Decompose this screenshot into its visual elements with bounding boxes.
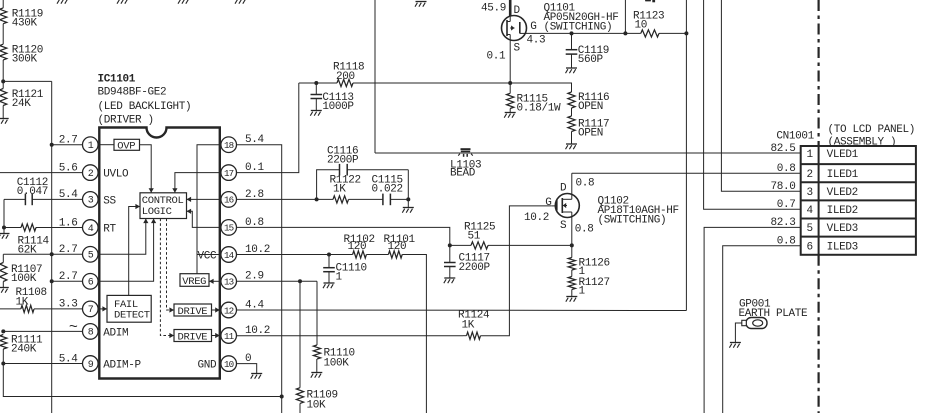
OVP box	[114, 139, 140, 152]
ground stub top 2	[117, 0, 129, 4]
svg-text:0.8: 0.8	[576, 177, 595, 189]
svg-text:1K: 1K	[333, 184, 346, 196]
svg-text:D: D	[560, 182, 567, 194]
svg-text:7: 7	[88, 305, 94, 316]
label pin10 voltage	[245, 353, 251, 365]
svg-text:(LED BACKLIGHT): (LED BACKLIGHT)	[98, 101, 192, 113]
wire gate top stub	[624, 0, 626, 33]
svg-text:200: 200	[336, 71, 355, 83]
svg-text:100K: 100K	[11, 273, 37, 285]
label pin4 voltage	[59, 217, 78, 229]
label pin6 voltage	[59, 271, 78, 283]
wire R1101 down to bottom	[402, 255, 426, 413]
ground under C1117	[444, 273, 456, 284]
boundary dash line lower	[817, 255, 819, 413]
wire R1124 to Q1102 gate	[481, 206, 552, 336]
svg-text:SS: SS	[103, 195, 116, 207]
label CN1001 ILED2	[827, 205, 858, 217]
wire R1119-R1120	[2, 24, 4, 45]
svg-text:LOGIC: LOGIC	[142, 206, 172, 218]
wire pin6 inner to control	[99, 219, 156, 282]
svg-text:(TO LCD PANEL): (TO LCD PANEL)	[828, 124, 916, 136]
svg-text:DRIVE: DRIVE	[178, 332, 208, 344]
ground under R1114	[0, 228, 10, 239]
svg-text:GND: GND	[198, 360, 218, 372]
capacitor C1110	[323, 255, 367, 284]
node pin9 junction	[1, 362, 5, 366]
svg-text:0.022: 0.022	[372, 184, 403, 196]
transistor Q1101 name	[544, 3, 619, 34]
svg-text:CN1001: CN1001	[776, 131, 814, 143]
pin 15	[221, 220, 237, 236]
svg-text:1000P: 1000P	[322, 101, 354, 113]
resistor R1108	[0, 287, 83, 313]
resistor R1117	[568, 108, 609, 139]
svg-text:1: 1	[88, 141, 94, 152]
label pin13 voltage	[245, 271, 264, 283]
wire OVP to control logic	[140, 145, 154, 193]
label CN1001 row4 voltage	[777, 199, 796, 211]
inductor L1103 bead	[450, 148, 481, 179]
wire row2 ILED1	[572, 172, 801, 174]
svg-text:4: 4	[807, 205, 814, 217]
svg-text:VLED1: VLED1	[827, 149, 859, 161]
node Q1102 source junction	[570, 243, 574, 247]
label 10.2 gate	[524, 212, 549, 224]
resistor R1115	[507, 83, 561, 114]
svg-text:RT: RT	[103, 224, 116, 236]
svg-text:560P: 560P	[578, 54, 604, 66]
svg-text:5: 5	[807, 223, 813, 235]
svg-text:120: 120	[348, 241, 367, 253]
svg-text:VLED3: VLED3	[827, 223, 858, 235]
wire 45.9 drain feed	[509, 0, 512, 16]
ground stub top 1	[57, 0, 69, 4]
svg-text:4.3: 4.3	[527, 35, 546, 47]
svg-text:VLED2: VLED2	[827, 187, 858, 199]
pin 18	[221, 137, 237, 153]
node R1125 junction	[448, 243, 452, 247]
svg-text:2: 2	[807, 169, 813, 181]
wire pin13 to VREG	[209, 279, 220, 284]
label 0.8 source	[575, 224, 594, 236]
svg-text:~: ~	[69, 319, 78, 336]
label CN1001 row6 voltage	[777, 235, 796, 247]
label CN1001 row2 voltage	[777, 163, 796, 175]
ground stub top 3	[178, 0, 190, 4]
svg-text:OPEN: OPEN	[578, 101, 603, 113]
ground under R1121	[0, 106, 9, 124]
svg-text:BEAD: BEAD	[450, 167, 476, 179]
wire pin7 arrow to fail detect	[98, 306, 107, 311]
label ADIM-P	[103, 360, 141, 372]
label CN1001 VLED2	[827, 187, 858, 199]
dashed wire control to drive1	[167, 219, 175, 313]
wire pin18-VCC-VREG vertical	[197, 145, 220, 274]
transistor Q1102 name	[598, 195, 679, 226]
svg-text:82.5: 82.5	[770, 143, 795, 155]
ground under C1115	[402, 202, 414, 213]
node 2.7 rail junction	[1, 79, 5, 83]
label pin16 voltage	[245, 189, 264, 201]
wire pin2 UVLO	[0, 172, 83, 174]
label UVLO	[103, 169, 129, 181]
svg-text:430K: 430K	[12, 17, 38, 29]
svg-text:8: 8	[88, 328, 94, 339]
wire pin17 riser	[237, 83, 299, 173]
label CN1001 VLED3	[827, 223, 858, 235]
label pin2 voltage	[59, 162, 78, 174]
label pin5 voltage	[59, 244, 78, 256]
svg-text:UVLO: UVLO	[103, 169, 129, 181]
wire pin5 to R1107	[3, 253, 51, 255]
svg-text:DETECT: DETECT	[114, 310, 150, 322]
resistor R1116	[568, 92, 609, 113]
node C1115 out junction	[406, 197, 410, 201]
wire R1120-junction	[2, 60, 4, 82]
wire drive2 to pin11	[212, 333, 220, 338]
pin 14	[221, 247, 237, 263]
svg-text:5: 5	[88, 251, 94, 262]
pin 11	[221, 328, 237, 344]
resistor R1111	[0, 335, 43, 356]
svg-text:6: 6	[88, 278, 94, 289]
node R1111 top	[1, 329, 5, 333]
label D Q1102	[560, 182, 567, 194]
ground under C1110	[323, 278, 335, 289]
node pin1 rail	[50, 143, 54, 147]
pin 7	[83, 301, 99, 317]
pin 13	[221, 274, 237, 290]
node C1113 junction	[314, 81, 318, 85]
ground stub top 4	[235, 0, 247, 4]
resistor R1109	[296, 281, 337, 413]
wire pin14 line	[237, 254, 353, 256]
resistor R1122	[330, 174, 383, 203]
wire R1111 to pin9 node	[2, 349, 4, 364]
wire row4 ILED2	[704, 0, 801, 209]
pin 4	[83, 220, 99, 236]
ground under R1110	[311, 359, 323, 378]
node C1119 junction	[570, 31, 574, 35]
pin 5	[83, 247, 99, 263]
svg-text:45.9: 45.9	[481, 3, 506, 15]
label RT	[103, 224, 116, 236]
wire pin1-OVP	[98, 144, 114, 146]
wire R1118 line corner to R1116	[510, 83, 571, 92]
wire pin6 outer	[52, 280, 83, 282]
label CN1001 pin 6	[807, 242, 813, 254]
wire row6 ILED3	[723, 246, 801, 413]
capacitor C1115	[372, 174, 409, 205]
pin 12	[221, 302, 237, 318]
dashed wire control to drive2	[160, 219, 174, 339]
transistor Q1102	[552, 194, 580, 218]
ground under R1127	[566, 290, 578, 302]
svg-text:51: 51	[468, 231, 481, 243]
resistor R1119	[0, 8, 43, 29]
svg-text:(SWITCHING): (SWITCHING)	[544, 22, 613, 34]
label 0.1	[487, 51, 507, 63]
svg-text:11: 11	[224, 331, 235, 342]
label pin17 voltage	[245, 162, 265, 174]
capacitor C1112	[4, 177, 83, 205]
fail detect box	[107, 295, 151, 322]
label CN1001 VLED1	[827, 149, 859, 161]
svg-text:ADIM-P: ADIM-P	[103, 360, 141, 372]
wire junction to rail	[3, 81, 52, 413]
svg-text:S: S	[514, 43, 521, 55]
resistor R1102	[344, 234, 375, 258]
wire pin13 line	[237, 280, 318, 282]
svg-text:3: 3	[807, 187, 813, 199]
svg-text:2200P: 2200P	[459, 262, 491, 274]
svg-text:10: 10	[224, 359, 234, 370]
svg-text:10: 10	[635, 20, 648, 32]
svg-text:ILED3: ILED3	[827, 242, 858, 254]
svg-text:2: 2	[88, 169, 94, 180]
svg-text:120: 120	[388, 241, 407, 253]
label CN1001 pin 2	[807, 169, 813, 181]
label pin7 voltage	[59, 299, 78, 311]
control logic box	[140, 193, 187, 219]
svg-text:0.047: 0.047	[17, 186, 48, 198]
pin 2	[83, 165, 99, 181]
svg-text:OPEN: OPEN	[578, 127, 603, 139]
svg-text:OVP: OVP	[117, 141, 135, 153]
svg-text:ILED1: ILED1	[827, 169, 859, 181]
wire gate line	[527, 32, 641, 34]
ground under C1119	[566, 62, 578, 73]
ground pin10	[251, 367, 263, 379]
GP001 earth plate symbol	[735, 318, 767, 338]
svg-text:4: 4	[88, 224, 94, 235]
label D Q1101	[514, 5, 521, 17]
wire R1102-R1101	[366, 254, 388, 256]
wire drive rail vertical	[685, 0, 687, 311]
pin 17	[221, 165, 237, 181]
label pin3 voltage	[59, 189, 79, 201]
wire pin16 inner	[187, 197, 220, 202]
wire pin14 VCC inner	[197, 254, 220, 256]
svg-text:DRIVE: DRIVE	[178, 306, 208, 318]
wire pin9 node to bottom rail	[3, 364, 281, 397]
node gate line to top	[623, 31, 627, 35]
svg-text:0.8: 0.8	[575, 224, 594, 236]
wire row3 VLED2	[721, 0, 800, 191]
svg-text:S: S	[560, 220, 567, 232]
ground under R1115	[504, 109, 516, 118]
label VCC	[198, 251, 218, 263]
svg-text:0.1: 0.1	[487, 51, 507, 63]
svg-text:10K: 10K	[307, 399, 327, 411]
resistor R1120	[0, 44, 43, 65]
drive box 2	[174, 330, 212, 344]
label CN1001 row1 voltage	[770, 143, 795, 155]
resistor R1125	[450, 221, 572, 249]
wire Q1102 source	[571, 218, 573, 246]
wire pin11 line	[237, 335, 464, 337]
svg-text:17: 17	[224, 168, 234, 179]
wire pin17 inner	[172, 173, 220, 193]
drive box 1	[174, 304, 212, 318]
wire C1112 down	[3, 199, 5, 227]
transistor Q1101	[502, 16, 527, 41]
label pin11 voltage	[245, 325, 270, 337]
pin 6	[83, 274, 99, 290]
svg-text:3: 3	[88, 196, 94, 207]
IC1101 header text	[98, 74, 192, 127]
svg-text:VCC: VCC	[198, 251, 218, 263]
node R1114 junction	[2, 226, 6, 230]
label TO LCD PANEL	[828, 124, 916, 148]
label pin14 voltage	[245, 244, 270, 256]
resistor R1126	[568, 245, 610, 278]
svg-text:15: 15	[224, 223, 234, 234]
label CN1001 pin 5	[807, 223, 813, 235]
svg-text:100K: 100K	[324, 358, 350, 370]
label pin12 voltage	[245, 299, 265, 311]
label CN1001 pin 4	[807, 205, 814, 217]
resistor R1114	[4, 224, 83, 257]
node pin16 junction	[315, 197, 319, 201]
resistor R1121	[0, 81, 44, 110]
wire pin8 ADIM	[3, 330, 82, 332]
resistor R1101	[384, 234, 416, 258]
connector CN1001 table	[801, 146, 916, 255]
svg-text:24K: 24K	[12, 98, 32, 110]
wire fail-detect to control	[129, 204, 140, 297]
svg-text:G: G	[530, 21, 536, 33]
svg-text:1: 1	[579, 286, 586, 298]
wire pin10 to ground	[237, 364, 257, 367]
ground under R1107	[0, 282, 9, 293]
node pin6 rail	[50, 279, 54, 283]
svg-text:16: 16	[224, 195, 234, 206]
svg-text:13: 13	[224, 277, 234, 288]
label G Q1101	[530, 21, 536, 33]
svg-text:(SWITCHING): (SWITCHING)	[598, 214, 667, 226]
wire C1116 right down	[407, 170, 409, 202]
svg-text:ADIM: ADIM	[103, 327, 128, 339]
label pin18 voltage	[245, 134, 265, 146]
svg-text:(DRIVER ): (DRIVER )	[98, 115, 154, 127]
svg-text:6: 6	[807, 242, 813, 254]
ground under C1113	[310, 105, 322, 116]
wire boost rail vertical	[374, 0, 376, 153]
GP001 label	[739, 298, 809, 320]
wire Q1101 source	[509, 40, 511, 83]
capacitor C1113	[311, 83, 355, 113]
node pin5 rail	[50, 252, 54, 256]
svg-text:12: 12	[224, 305, 234, 316]
resistor R1110	[313, 281, 354, 369]
label 4.3	[527, 35, 546, 47]
wire pin18 riser	[237, 145, 282, 413]
wire drive1 to pin12	[212, 307, 220, 312]
resistor R1107	[0, 254, 42, 284]
label S Q1101	[514, 43, 521, 55]
svg-text:1: 1	[336, 272, 343, 284]
resistor R1118	[299, 62, 510, 87]
svg-text:0.18/1W: 0.18/1W	[517, 102, 562, 114]
pin 1	[83, 137, 99, 153]
boundary dash line upper	[817, 0, 819, 146]
label pin1 voltage	[59, 135, 78, 147]
wire pin15 line	[237, 227, 450, 245]
label ADIM	[103, 327, 128, 339]
wire pin1 to rail	[52, 144, 83, 146]
op-amp U1 IC1101 body	[99, 128, 220, 379]
wire row5 VLED3	[704, 227, 801, 413]
label CN1001 pin 3	[807, 187, 813, 199]
label CN1001 ILED1	[827, 169, 859, 181]
svg-text:10.2: 10.2	[245, 325, 270, 337]
svg-text:18: 18	[224, 140, 234, 151]
pin 9	[83, 356, 99, 372]
label 45.9	[481, 3, 506, 15]
wire pin5 outer	[52, 253, 83, 255]
capacitor C1119	[566, 33, 609, 66]
wire pin5 inner to control	[99, 219, 148, 255]
ground under R1117	[566, 132, 578, 150]
node bottom rail to pin18 riser	[280, 395, 284, 399]
pin 16	[221, 192, 237, 208]
label pin15 voltage	[245, 217, 264, 229]
node R1109 junction	[298, 279, 302, 283]
node C1110 junction	[327, 253, 331, 257]
label CN1001 row5 voltage	[770, 217, 795, 229]
svg-text:9: 9	[88, 360, 94, 371]
resistor R1127	[568, 270, 610, 298]
label pin8 tilde	[69, 319, 78, 336]
pin 10	[221, 356, 237, 372]
svg-text:240K: 240K	[11, 344, 37, 356]
svg-text:300K: 300K	[12, 54, 38, 66]
svg-text:BD948BF-GE2: BD948BF-GE2	[98, 87, 167, 99]
label G Q1102	[545, 197, 551, 209]
svg-text:ILED2: ILED2	[827, 205, 858, 217]
VREG box	[180, 274, 209, 288]
svg-text:1K: 1K	[462, 319, 475, 331]
label S Q1102	[560, 220, 567, 232]
label GND	[198, 360, 218, 372]
node Q1101 source junction	[508, 81, 512, 85]
diode D1101 partial	[645, 0, 655, 2]
wire Q1102 drain from row2	[571, 173, 573, 193]
label CN1001 row3 voltage	[770, 181, 795, 193]
label CN1001 ILED3	[827, 242, 858, 254]
connector CN1001 label	[776, 131, 814, 143]
wire bead line	[375, 152, 801, 154]
label SS	[103, 195, 116, 207]
svg-text:14: 14	[224, 250, 235, 261]
resistor R1123	[633, 10, 686, 37]
label 0.8 drain	[576, 177, 595, 189]
wire pin15 inner	[187, 209, 220, 228]
svg-text:VREG: VREG	[182, 276, 206, 288]
svg-text:1K: 1K	[16, 296, 29, 308]
wire pin9 outer	[3, 363, 82, 365]
label CN1001 pin 1	[807, 149, 814, 161]
wire left rail top	[2, 0, 4, 8]
capacitor C1117	[444, 245, 491, 274]
wire pin16 line	[237, 198, 334, 200]
pin 8	[83, 324, 99, 340]
svg-text:10.2: 10.2	[524, 212, 549, 224]
ground GP001	[729, 338, 741, 348]
node R1123 to drive rail	[684, 31, 688, 35]
